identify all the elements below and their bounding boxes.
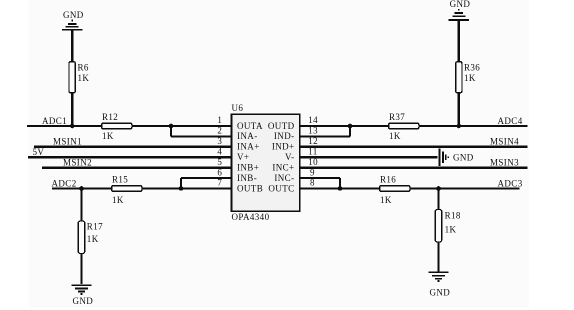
svg-text:U6: U6: [232, 103, 244, 113]
resistor R12: [102, 112, 133, 141]
junction node pin7/pin6: [179, 186, 184, 191]
junction node pin8/pin9: [338, 186, 343, 191]
svg-text:V-: V-: [285, 152, 294, 162]
junction node ADC2/R17: [79, 186, 84, 191]
wire ADC2 net (pin 7 row): [52, 187, 232, 189]
svg-text:1K: 1K: [380, 195, 392, 205]
svg-text:13: 13: [308, 126, 318, 136]
svg-text:9: 9: [310, 167, 315, 177]
wire pin 2 jog vertical: [170, 126, 172, 136]
resistor R15: [112, 175, 143, 205]
wire R6 bottom vertical: [71, 92, 73, 126]
svg-text:MSIN4: MSIN4: [490, 137, 519, 147]
svg-text:4: 4: [217, 146, 222, 156]
svg-text:5: 5: [217, 157, 222, 167]
resistor R17: [78, 221, 103, 254]
svg-text:1K: 1K: [464, 73, 476, 83]
resistor R36: [456, 62, 481, 93]
resistor R6: [69, 62, 89, 93]
svg-text:INC+: INC+: [272, 163, 294, 173]
wire MSIN4 net (pin 12 row): [300, 146, 528, 148]
svg-text:14: 14: [308, 115, 318, 125]
wire MSIN2 net (pin 5 row): [42, 167, 232, 169]
svg-text:ADC1: ADC1: [42, 116, 67, 126]
wire R36 top vertical: [458, 21, 460, 61]
svg-text:INB-: INB-: [237, 173, 257, 183]
wire pin 2 horizontal: [171, 135, 232, 137]
svg-text:R17: R17: [87, 222, 103, 232]
wire pin 9 jog vertical: [339, 178, 341, 188]
svg-text:5V: 5V: [33, 147, 45, 157]
svg-text:6: 6: [217, 167, 222, 177]
wire pin 13 jog vertical: [349, 126, 351, 136]
svg-text:R12: R12: [102, 112, 118, 122]
wire MSIN3 net (pin 10 row): [300, 167, 528, 169]
svg-text:12: 12: [308, 136, 318, 146]
svg-text:R36: R36: [464, 62, 480, 72]
ground bottom-right (below R18): [428, 272, 448, 281]
wire 5V net (pin 4 row): [28, 156, 232, 158]
wire R6 top vertical: [71, 31, 73, 62]
svg-text:INC-: INC-: [274, 173, 294, 183]
wire R18 bottom vertical: [437, 242, 439, 271]
ground top-left (above R6): [62, 21, 82, 30]
wire R17 top vertical: [80, 189, 82, 222]
svg-text:GND: GND: [450, 0, 471, 9]
svg-text:10: 10: [308, 157, 318, 167]
svg-text:1K: 1K: [87, 234, 99, 244]
svg-text:OUTC: OUTC: [268, 183, 294, 193]
svg-text:R6: R6: [78, 62, 89, 72]
wire MSIN1 net (pin 3 row): [34, 146, 232, 148]
svg-text:3: 3: [217, 136, 222, 146]
svg-text:OPA4340: OPA4340: [232, 212, 270, 222]
svg-text:INA-: INA-: [237, 131, 258, 141]
wire pin 9 horizontal: [300, 177, 341, 179]
svg-text:GND: GND: [63, 10, 84, 20]
junction node ADC4/R36: [457, 124, 462, 129]
U6 left pin numbers: [217, 115, 222, 188]
wire V- net (pin 11 row): [300, 156, 438, 158]
U6 right pin labels: [268, 121, 295, 194]
svg-text:MSIN1: MSIN1: [53, 137, 82, 147]
svg-text:1K: 1K: [445, 224, 457, 234]
svg-text:R15: R15: [112, 175, 128, 185]
wire R18 top vertical: [437, 189, 439, 210]
svg-text:GND: GND: [73, 296, 94, 306]
svg-text:IND+: IND+: [272, 142, 295, 152]
wire ADC4 net (pin 14 row): [300, 125, 528, 127]
wire R36 bottom vertical: [458, 92, 460, 126]
wire pin 6 horizontal: [181, 177, 232, 179]
svg-text:OUTB: OUTB: [237, 183, 263, 193]
svg-text:ADC3: ADC3: [498, 178, 523, 188]
svg-text:11: 11: [308, 146, 317, 156]
svg-text:R37: R37: [389, 112, 405, 122]
svg-text:1K: 1K: [389, 131, 401, 141]
svg-text:R16: R16: [380, 175, 396, 185]
svg-text:OUTA: OUTA: [237, 121, 263, 131]
svg-text:GND: GND: [430, 287, 451, 297]
svg-text:IND-: IND-: [274, 131, 295, 141]
svg-text:8: 8: [310, 178, 315, 188]
svg-text:7: 7: [217, 178, 222, 188]
svg-text:INA+: INA+: [237, 142, 260, 152]
svg-text:1: 1: [217, 115, 222, 125]
U6 right pin numbers: [308, 115, 318, 188]
svg-text:1K: 1K: [78, 73, 90, 83]
resistor R37: [389, 112, 420, 141]
junction node pin14/pin13: [348, 124, 353, 129]
ground bottom-left (below R17): [71, 285, 91, 294]
svg-text:MSIN2: MSIN2: [63, 158, 92, 168]
wire R17 bottom vertical: [80, 254, 82, 285]
wire pin 13 horizontal: [300, 135, 351, 137]
resistor R18: [435, 210, 461, 243]
wire ADC3 net (pin 8 row): [300, 187, 520, 189]
U6 left pin labels: [237, 121, 263, 194]
svg-text:ADC4: ADC4: [498, 116, 523, 126]
svg-text:GND: GND: [453, 153, 474, 163]
junction node ADC1/R6: [70, 124, 75, 129]
svg-text:MSIN3: MSIN3: [490, 158, 519, 168]
junction node pin1/pin2: [169, 124, 174, 129]
svg-text:1K: 1K: [112, 195, 124, 205]
svg-text:2: 2: [217, 126, 222, 136]
svg-text:ADC2: ADC2: [52, 178, 77, 188]
ground right of pin 11 (V-): [440, 148, 449, 166]
junction node ADC3/R18: [436, 186, 441, 191]
op-amp U6 body: [232, 114, 300, 211]
wire ADC1 net (pin 1 row): [27, 125, 232, 127]
ground top-right (above R36): [449, 10, 469, 20]
svg-text:INB+: INB+: [237, 163, 259, 173]
svg-text:R18: R18: [445, 211, 461, 221]
svg-text:OUTD: OUTD: [268, 121, 295, 131]
resistor R16: [380, 175, 411, 205]
wire pin 6 jog vertical: [180, 178, 182, 188]
svg-text:V+: V+: [237, 152, 249, 162]
svg-text:1K: 1K: [102, 131, 114, 141]
